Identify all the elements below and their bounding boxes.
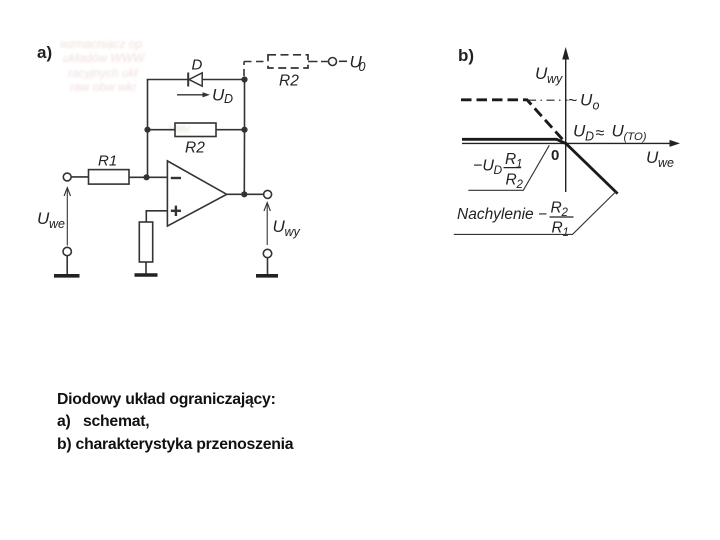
axis x (U_we)	[462, 140, 680, 147]
svg-text:−U: −U	[473, 158, 494, 175]
wire feedback vertical left	[147, 80, 149, 178]
wire R1 to op-amp inverting input	[129, 176, 167, 178]
curve solid (limited characteristic)	[462, 139, 618, 193]
arrow U_D	[177, 92, 210, 97]
ground left	[54, 274, 80, 278]
diode D triangle	[189, 73, 202, 86]
svg-text:D: D	[494, 163, 503, 177]
svg-text:raw obw wkr: raw obw wkr	[70, 80, 138, 94]
op-amp U1	[167, 161, 226, 226]
svg-text:układów WWW: układów WWW	[63, 51, 146, 65]
svg-text:b): b)	[458, 46, 474, 65]
wire R2 to right rail	[216, 129, 245, 131]
axis y (U_wy)	[562, 47, 569, 192]
label U_D approx U_(TO)	[573, 122, 647, 144]
op-amp minus sign	[171, 177, 181, 179]
svg-text:2: 2	[516, 179, 524, 191]
terminal lower left circle	[63, 247, 71, 255]
wire dashed to R2 output branch	[244, 61, 268, 63]
terminal input circle	[63, 173, 71, 181]
wire to left ground	[66, 256, 68, 274]
svg-text:1: 1	[563, 227, 569, 239]
decorative scan bleed-through (unlabeled, placed first)	[60, 37, 190, 135]
wire dash to -Uo label	[339, 60, 347, 62]
label U_wy	[273, 217, 301, 239]
node diode junction	[241, 76, 247, 82]
leader line to slope	[454, 192, 616, 235]
svg-text:racyjnych ukł: racyjnych ukł	[68, 66, 138, 80]
wire dashed box to terminal	[308, 61, 328, 63]
wire op-amp output	[227, 193, 264, 195]
arrow U_we	[64, 188, 70, 246]
wire to right ground	[267, 258, 269, 274]
svg-text:D: D	[585, 130, 594, 144]
fraction bar R1/R2	[504, 167, 522, 169]
svg-text:R2: R2	[279, 73, 299, 90]
wire input to R1	[71, 176, 88, 178]
svg-text:R: R	[505, 151, 516, 168]
label U_wy axis	[535, 64, 563, 86]
curve dashed (open-loop characteristic)	[461, 100, 566, 143]
resistor R1	[89, 170, 130, 185]
line thin dashed level ~Uo	[528, 99, 568, 101]
svg-text:D: D	[224, 92, 233, 106]
label U_D	[212, 86, 233, 107]
svg-text:R: R	[506, 172, 517, 189]
svg-text:we: we	[49, 217, 65, 231]
svg-text:1: 1	[516, 159, 522, 171]
svg-text:0: 0	[359, 60, 366, 74]
caption text	[57, 389, 293, 456]
svg-text:≈: ≈	[596, 125, 605, 142]
wire right rail upper (diode node to R2 node)	[244, 80, 246, 130]
label Nachylenie -R2/R1	[457, 200, 569, 240]
svg-text:a): a)	[37, 43, 52, 62]
resistor (non-inverting to ground)	[139, 222, 152, 262]
wire non-inverting input	[146, 211, 167, 222]
terminal output branch circle	[329, 58, 337, 66]
wire diode to node	[202, 79, 244, 81]
node R2 right junction	[241, 127, 247, 133]
wire resistor to ground	[145, 262, 147, 274]
wire right rail lower (R2 node to output node)	[243, 130, 245, 195]
svg-text:0: 0	[551, 147, 559, 164]
wire corner to diode	[147, 79, 188, 81]
label -U_o	[350, 52, 366, 74]
svg-text:D: D	[192, 57, 203, 74]
wire dashed stub vertical	[243, 62, 245, 77]
label ~U_o	[568, 91, 600, 113]
node output junction	[241, 191, 247, 197]
svg-text:R1: R1	[98, 153, 117, 170]
terminal lower right circle	[263, 249, 271, 257]
ground right	[256, 274, 278, 278]
svg-text:wzmacniacz op: wzmacniacz op	[60, 37, 142, 51]
label U_we	[37, 209, 65, 231]
fraction bar R2/R1	[550, 216, 574, 218]
resistor R2 feedback	[175, 123, 216, 137]
node R2 left junction	[144, 127, 150, 133]
svg-text:R2: R2	[185, 140, 205, 157]
node inverting input junction	[143, 174, 149, 180]
op-amp plus sign	[171, 206, 181, 216]
svg-text:(TO): (TO)	[624, 131, 647, 143]
svg-text:o: o	[593, 99, 600, 113]
svg-text:we: we	[658, 156, 674, 170]
arrow U_wy	[264, 203, 270, 246]
label -U_D R1/R2	[473, 151, 524, 191]
svg-text:wy: wy	[547, 72, 563, 86]
resistor R2 dashed (output branch)	[268, 55, 308, 68]
svg-text:R: R	[551, 200, 562, 217]
diode D cathode bar	[187, 73, 189, 87]
label U_we axis	[646, 148, 674, 170]
terminal output circle	[264, 190, 272, 198]
ground middle	[135, 273, 158, 277]
svg-text:U: U	[580, 91, 593, 110]
svg-text:~: ~	[568, 93, 577, 110]
leader line to solid level	[468, 145, 549, 190]
wire node to R2 feedback	[148, 129, 176, 131]
svg-text:Nachylenie −: Nachylenie −	[457, 206, 547, 223]
svg-text:wy: wy	[285, 225, 301, 239]
